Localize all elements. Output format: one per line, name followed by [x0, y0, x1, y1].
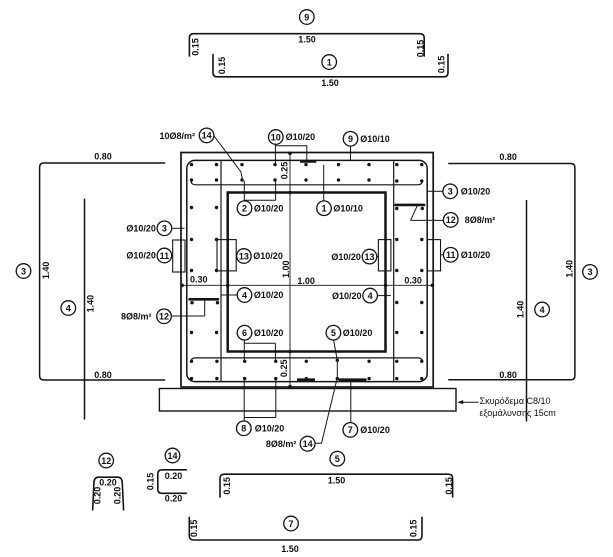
svg-text:4: 4 — [368, 291, 373, 301]
vertical dimension line 0.25/1.00/0.25 — [289, 153, 291, 388]
svg-text:14: 14 — [202, 131, 212, 141]
svg-text:0.15: 0.15 — [189, 520, 199, 538]
bar 1 circle label — [322, 55, 337, 70]
circle 1 plan — [317, 201, 332, 216]
rebar dots top inner row — [190, 178, 424, 182]
bar 5 shape (hooks down) — [220, 474, 453, 497]
circle 2 — [237, 201, 252, 216]
svg-text:1.50: 1.50 — [321, 78, 339, 88]
svg-text:0.80: 0.80 — [94, 370, 112, 380]
svg-text:1: 1 — [327, 57, 332, 67]
thick dash bottom right — [339, 378, 367, 381]
outer reinforcement stirrup ring — [187, 160, 427, 381]
leader 14 bottom — [315, 380, 337, 444]
svg-text:1.50: 1.50 — [298, 35, 316, 45]
svg-text:9: 9 — [348, 134, 353, 144]
spacer bar diagonal right — [411, 205, 418, 220]
bar 4 left shape — [84, 199, 86, 420]
svg-text:3: 3 — [162, 224, 167, 234]
bar 9 shape (top, hooks down) — [189, 34, 424, 57]
pilaster rect left outer (label 11) — [173, 240, 185, 272]
svg-text:3: 3 — [21, 266, 26, 276]
svg-text:12: 12 — [446, 215, 456, 225]
svg-text:5: 5 — [331, 328, 336, 338]
footing (leveling concrete) — [159, 389, 456, 412]
thick dash bottom left — [297, 378, 315, 381]
svg-text:0.15: 0.15 — [222, 477, 232, 495]
svg-text:10: 10 — [271, 132, 281, 142]
svg-text:7: 7 — [288, 519, 293, 529]
svg-text:0.30: 0.30 — [190, 275, 208, 285]
leader 2 — [244, 181, 275, 202]
svg-text:1.50: 1.50 — [328, 475, 346, 485]
leader 4 right — [377, 295, 391, 297]
svg-text:0.80: 0.80 — [499, 370, 517, 380]
rebar dots bottom inner row — [190, 359, 424, 363]
pilaster rect right inner (label 13) — [378, 240, 391, 271]
bar 10 thick dash top — [300, 160, 316, 163]
svg-text:1: 1 — [321, 204, 326, 214]
svg-text:0.80: 0.80 — [94, 152, 112, 162]
leader 5 — [334, 340, 338, 379]
leader 14 top — [214, 136, 242, 179]
circle 6 — [237, 325, 252, 340]
svg-text:Ø10/20: Ø10/20 — [360, 425, 390, 435]
svg-text:0.15: 0.15 — [191, 38, 201, 56]
bar 3 right shape — [448, 164, 575, 380]
svg-text:7: 7 — [348, 425, 353, 435]
svg-text:0.20: 0.20 — [112, 487, 122, 505]
right wall label 11 — [443, 248, 458, 263]
leader 10 — [275, 144, 306, 164]
svg-text:13: 13 — [239, 251, 249, 261]
svg-text:12: 12 — [159, 312, 169, 322]
circle 12 bottom left — [99, 453, 114, 468]
svg-text:1.40: 1.40 — [515, 301, 525, 319]
circle 9 top — [343, 132, 358, 147]
spacer bar drop left — [204, 299, 206, 316]
leader 3 right — [427, 190, 443, 192]
circle 14 top — [199, 128, 214, 143]
svg-text:0.15: 0.15 — [444, 477, 454, 495]
leader 12 right — [411, 219, 444, 221]
leader 1 — [323, 165, 325, 201]
svg-text:0.20: 0.20 — [165, 494, 183, 504]
svg-text:0.15: 0.15 — [217, 57, 227, 75]
svg-text:0.15: 0.15 — [437, 56, 447, 74]
svg-text:Ø10/10: Ø10/10 — [360, 134, 390, 144]
svg-text:Ø10/20: Ø10/20 — [461, 187, 491, 197]
svg-text:3: 3 — [587, 267, 592, 277]
leader 3 left — [172, 227, 185, 229]
svg-text:0.20: 0.20 — [99, 478, 117, 488]
spacer bar cap left wall (bar 12) — [190, 298, 218, 301]
svg-text:11: 11 — [160, 251, 170, 261]
svg-text:Ø10/20: Ø10/20 — [254, 203, 284, 213]
circle 3 far left — [16, 264, 31, 279]
label 8 under footing — [237, 421, 252, 436]
svg-text:4: 4 — [242, 290, 247, 300]
leader 4 left — [221, 294, 237, 296]
svg-text:Ø10/20: Ø10/20 — [254, 290, 284, 300]
leader 7 — [350, 381, 352, 423]
svg-text:Ø10/20: Ø10/20 — [461, 250, 491, 260]
svg-text:0.25: 0.25 — [280, 162, 290, 180]
pilaster rect left inner (label 13) — [217, 240, 236, 271]
circle 13 right — [362, 249, 377, 264]
leader 12 left — [171, 315, 204, 317]
inner mesh line left wall — [220, 161, 222, 381]
label 7 under footing — [343, 423, 358, 438]
bar 3 left shape — [40, 163, 166, 380]
svg-text:10Ø8/m²: 10Ø8/m² — [160, 131, 196, 141]
svg-text:0.20: 0.20 — [93, 487, 103, 505]
svg-text:0.15: 0.15 — [416, 40, 426, 58]
leader 11 left — [172, 255, 173, 257]
circle 14 bottom left — [165, 448, 180, 463]
inner mesh line top wall — [191, 181, 422, 185]
circle 14 bottom — [300, 436, 315, 451]
svg-text:0.20: 0.20 — [165, 471, 183, 481]
svg-text:1.00: 1.00 — [281, 260, 291, 278]
svg-text:0.15: 0.15 — [146, 473, 156, 491]
svg-text:εξομάλυνσης 15cm: εξομάλυνσης 15cm — [480, 408, 556, 418]
svg-text:0.25: 0.25 — [279, 360, 289, 378]
leader 9 — [350, 146, 352, 160]
leader 13 right — [377, 256, 379, 258]
circle 5 plan — [326, 325, 341, 340]
svg-text:Ø10/20: Ø10/20 — [331, 252, 361, 262]
svg-text:6: 6 — [242, 328, 247, 338]
svg-text:1.40: 1.40 — [565, 260, 575, 278]
bar 7 shape (hooks up) — [189, 517, 422, 540]
svg-text:Ø10/20: Ø10/20 — [126, 251, 156, 261]
svg-text:8Ø8/m²: 8Ø8/m² — [121, 312, 152, 322]
svg-text:13: 13 — [364, 252, 374, 262]
circle 3 far right — [583, 265, 598, 280]
svg-text:1.40: 1.40 — [85, 295, 95, 313]
rebar dots top outer row — [190, 163, 424, 166]
bar 4 right shape — [526, 200, 528, 422]
svg-text:5: 5 — [335, 454, 340, 464]
svg-text:8Ø8/m²: 8Ø8/m² — [266, 439, 297, 449]
rebar dots bottom outer row — [190, 377, 424, 380]
outer wall face square — [181, 153, 433, 388]
svg-text:0.15: 0.15 — [408, 520, 418, 538]
svg-text:Ø10/20: Ø10/20 — [255, 423, 285, 433]
svg-text:4: 4 — [540, 305, 545, 315]
svg-text:Ø10/10: Ø10/10 — [333, 203, 363, 213]
bar 5 circle label — [330, 451, 345, 466]
bar 1 shape (hooks up) — [213, 54, 448, 77]
svg-text:12: 12 — [101, 456, 111, 466]
inner face square (thick) — [228, 193, 386, 352]
right wall label 12 — [443, 213, 458, 228]
rebar dots right wall columns — [395, 207, 424, 334]
svg-text:4: 4 — [66, 303, 71, 313]
svg-text:Ø10/20: Ø10/20 — [343, 328, 373, 338]
circle 4 far right — [535, 302, 550, 317]
bar 7 circle label — [284, 516, 299, 531]
svg-text:11: 11 — [446, 250, 456, 260]
horizontal dimension line 0.30/1.00/0.30 — [181, 284, 433, 286]
rebar dots left wall columns — [190, 206, 219, 334]
svg-text:2: 2 — [242, 204, 247, 214]
svg-text:3: 3 — [448, 187, 453, 197]
circle 13 left — [237, 249, 252, 264]
svg-text:Σκυρόδεμα C8/10: Σκυρόδεμα C8/10 — [480, 396, 551, 406]
svg-text:Ø10/20: Ø10/20 — [254, 328, 284, 338]
bar 12 shape (inverted U) — [93, 477, 124, 510]
pilaster rect right outer (label 11) — [428, 240, 441, 271]
svg-text:0.80: 0.80 — [499, 152, 517, 162]
circle 4 left plan — [237, 288, 252, 303]
inner mesh line right wall — [393, 161, 395, 381]
svg-text:1.00: 1.00 — [297, 276, 315, 286]
inner mesh line bottom wall — [191, 358, 422, 362]
right wall label 3 — [443, 184, 458, 199]
circle 4 right plan — [363, 288, 378, 303]
bar 9 circle label — [300, 10, 315, 25]
svg-text:Ø10/20: Ø10/20 — [332, 291, 362, 301]
leader 6 runs down to label 8 — [244, 340, 275, 361]
svg-text:8Ø8/m²: 8Ø8/m² — [465, 215, 496, 225]
svg-text:0.30: 0.30 — [404, 276, 422, 286]
svg-text:Ø10/20: Ø10/20 — [126, 224, 156, 234]
leader 8 branch — [244, 379, 276, 421]
concrete note arrow — [461, 401, 479, 403]
circle 4 far left — [61, 301, 76, 316]
circle 10 top — [269, 130, 284, 145]
svg-text:14: 14 — [167, 451, 177, 461]
bar 14 shape (C open right) — [158, 470, 187, 494]
svg-text:9: 9 — [304, 12, 309, 22]
spacer bar cap right wall (bar 12) — [395, 204, 424, 207]
svg-text:Ø10/20: Ø10/20 — [253, 251, 283, 261]
svg-text:14: 14 — [303, 439, 313, 449]
svg-text:1.50: 1.50 — [281, 544, 299, 554]
svg-text:Ø10/20: Ø10/20 — [286, 132, 316, 142]
svg-text:1.40: 1.40 — [41, 262, 51, 280]
svg-text:8: 8 — [241, 424, 246, 434]
leader 11 right — [441, 254, 444, 256]
